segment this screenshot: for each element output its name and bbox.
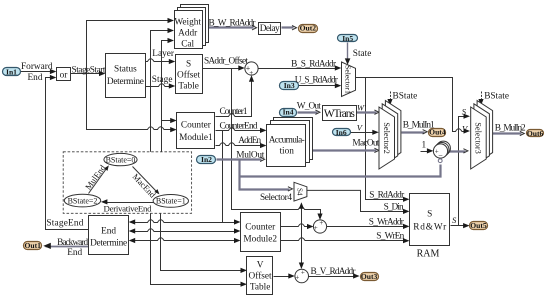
svg-text:1: 1 — [422, 141, 427, 151]
svg-text:StageStart: StageStart — [72, 66, 106, 76]
label B_V_RdAddr — [311, 267, 357, 277]
svg-text:B_S_RdAddr: B_S_RdAddr — [291, 60, 337, 70]
bus B_MulIn1 from Selector2 to Out4 — [402, 130, 428, 134]
wire H1 branch down into adder2 top — [299, 210, 304, 270]
block WTrans — [323, 106, 357, 121]
svg-text:Selector4: Selector4 — [260, 193, 292, 203]
svg-text:In4: In4 — [283, 108, 294, 117]
svg-text:W': W' — [357, 102, 366, 112]
svg-text:Layer: Layer — [152, 49, 175, 59]
svg-text:MacOut: MacOut — [352, 138, 379, 148]
svg-text:WTrans: WTrans — [324, 108, 356, 120]
svg-text:Table: Table — [250, 283, 271, 293]
wire Selector1 output to Selector3 V input, descent at x452.5, hump over x458.5 — [356, 78, 471, 134]
svg-text:W_Out: W_Out — [297, 102, 321, 112]
block RAM S Rd&Wr — [410, 194, 450, 260]
block Accumulation (stacked) — [267, 118, 313, 167]
svg-text:MulOut: MulOut — [236, 150, 264, 160]
svg-text:Rd&Wr: Rd&Wr — [413, 223, 447, 233]
label MacOut — [352, 138, 379, 148]
block Counter Module2 — [241, 213, 281, 252]
wire Stage from Status Determine to S Offset Table in2, hump over riser B — [146, 83, 176, 88]
svg-text:BState: BState — [484, 91, 509, 101]
dashed BState control into Selector2 — [387, 92, 392, 106]
wire Counter Module2 out1 to adder1 — [281, 224, 314, 229]
wire U_S_RdAddr from In3 to Selector1 — [299, 83, 342, 88]
wire StageStart from or to Status Determine — [71, 71, 106, 76]
svg-text:CounterEnd: CounterEnd — [220, 122, 258, 132]
svg-text:B_W_RdAddr: B_W_RdAddr — [209, 18, 257, 28]
label StageStart — [72, 66, 106, 76]
svg-text:Module2: Module2 — [243, 235, 277, 245]
label constant 1 — [422, 141, 427, 151]
wire Backward End from End Determine to Out1 — [43, 243, 88, 249]
port Out6 — [527, 129, 544, 138]
svg-text:S_RdAddr: S_RdAddr — [369, 190, 405, 200]
bus W' from WTrans to Selector2 — [357, 110, 379, 114]
svg-text:or: or — [60, 70, 69, 80]
svg-text:StageEnd: StageEnd — [46, 219, 83, 229]
svg-text:Determine: Determine — [107, 77, 144, 87]
label V italic at Selector3 input — [462, 123, 469, 133]
label B_S_RdAddr — [291, 60, 337, 70]
svg-text:Out5: Out5 — [470, 221, 487, 230]
label Stage — [152, 75, 173, 85]
label U_S_RdAddr — [295, 76, 339, 86]
wire B_S_RdAddr from adder to Selector1 — [259, 65, 342, 70]
label State — [353, 49, 372, 59]
block Selector3 (stacked trapezoid) — [471, 101, 493, 169]
state BState=0 ellipse — [104, 153, 137, 165]
block S Offset Table — [176, 55, 203, 94]
svg-text:In2: In2 — [201, 155, 212, 164]
port In1 — [3, 67, 21, 76]
label BState at Selector3 — [484, 91, 509, 101]
wire S_WrAddr from adder1 to RAM — [327, 224, 410, 229]
block Weight Addr Cal (stacked) — [174, 5, 208, 50]
state BState=2 ellipse — [64, 194, 100, 207]
svg-text:Offset: Offset — [249, 271, 272, 282]
svg-text:Weight: Weight — [174, 17, 201, 27]
svg-text:Counter: Counter — [181, 121, 212, 131]
transition MulEnd arrow BState=2 to BState=0 — [83, 162, 109, 193]
subtractor 1-x (stacked circles) — [433, 141, 450, 163]
wire StageStart branch up to Weight Addr Cal in1 — [87, 18, 175, 74]
port In4 — [280, 108, 297, 117]
svg-text:In5: In5 — [342, 34, 353, 43]
svg-text:Out3: Out3 — [361, 272, 378, 281]
svg-text:In1: In1 — [6, 67, 17, 76]
wire RAM output S to Out5 and up to Selector3 S input — [451, 114, 471, 229]
svg-text:S_Din: S_Din — [384, 203, 404, 213]
label S_WrAddr — [369, 218, 405, 228]
label Backward End — [57, 238, 88, 258]
wire S_Din from Selector4 output to RAM — [307, 190, 410, 214]
wire v1: Stage net below state box to wire3 and V Offset Table in2 — [151, 214, 248, 287]
svg-text:Module1: Module1 — [179, 133, 213, 143]
label StageEnd — [46, 219, 83, 229]
svg-text:Addr: Addr — [178, 29, 198, 39]
svg-text:BState=2: BState=2 — [68, 196, 98, 205]
label B_MulIn1 — [403, 120, 435, 130]
label W_Out — [297, 102, 321, 112]
svg-text:End: End — [28, 73, 43, 83]
bus MacOut from Accumulation to Selector2 — [307, 148, 379, 152]
svg-text:B_MulIn1: B_MulIn1 — [403, 120, 435, 130]
wire In1 to or gate — [21, 69, 57, 74]
svg-text:Table: Table — [178, 81, 199, 91]
wire Counter1 from Counter Module1 up to SAddr adder — [216, 75, 255, 116]
svg-text:AddEn: AddEn — [238, 136, 261, 146]
svg-text:U_S_RdAddr: U_S_RdAddr — [295, 76, 339, 86]
svg-text:+: + — [301, 268, 305, 276]
wire CounterEnd from Counter Module1 to Accumulation, drop at x222 — [216, 128, 267, 223]
label S_Din — [384, 203, 404, 213]
label B_MulIn2 — [495, 123, 526, 133]
label Forward End — [21, 62, 53, 83]
block End Determine — [89, 216, 129, 255]
svg-text:Determine: Determine — [90, 239, 127, 249]
svg-text:Counter: Counter — [245, 222, 276, 232]
svg-text:Counter1: Counter1 — [220, 107, 248, 117]
port In2 — [197, 155, 216, 164]
svg-text:Out2: Out2 — [300, 23, 317, 32]
svg-text:Selector1: Selector1 — [343, 65, 352, 94]
transition MacEnd arrow BState=0 to BState=1 — [131, 167, 160, 201]
svg-text:+: + — [249, 69, 253, 77]
svg-text:Stage: Stage — [152, 75, 173, 85]
port In5 — [338, 34, 358, 43]
wire Layer from Status Determine to S Offset Table in1, hump over riser A — [146, 59, 176, 64]
block Selector2 (stacked trapezoid) — [379, 101, 401, 169]
wire State from In5 to Selector1 control — [345, 43, 351, 65]
svg-text:S: S — [462, 106, 467, 116]
label CounterEnd — [220, 122, 258, 132]
svg-text:V: V — [257, 261, 264, 271]
label Layer — [152, 49, 175, 59]
dashed BState control into Selector3 — [478, 92, 483, 106]
label S_RdAddr — [369, 190, 405, 200]
wire riser A: Stage net up to WAC in2 and down into state box top — [151, 28, 175, 153]
svg-text:In3: In3 — [284, 81, 295, 90]
dashed state machine box — [63, 152, 191, 214]
svg-text:+: + — [314, 224, 318, 232]
wire B_S net drop from SAddr_Offset to horizontal control line H1 — [232, 69, 323, 221]
svg-text:Offset: Offset — [177, 69, 200, 80]
port Out5 — [470, 221, 488, 230]
wire v2: Layer net below state box to wire2 and V Offset Table in1 — [161, 214, 248, 274]
svg-text:+: + — [295, 273, 299, 281]
svg-text:BState: BState — [393, 91, 418, 101]
bus B_MulIn2 from Selector3 to Out6 — [493, 131, 525, 135]
port Out1 — [24, 241, 42, 250]
block or gate — [57, 68, 71, 81]
port In6 — [333, 128, 351, 137]
wire S_WrEn from Counter Module2 to RAM, hump at x301 — [281, 238, 410, 244]
svg-text:tion: tion — [279, 147, 294, 157]
state BState=1 ellipse — [153, 195, 188, 208]
svg-text:B_V_RdAddr: B_V_RdAddr — [311, 267, 357, 277]
svg-text:S4: S4 — [296, 188, 304, 196]
svg-text:S: S — [427, 210, 432, 220]
svg-text:In6: In6 — [336, 128, 347, 137]
label SAddr_Offset — [204, 56, 248, 67]
label B_W_RdAddr — [209, 18, 257, 28]
svg-text:RAM: RAM — [417, 248, 440, 259]
block Counter Module1 — [177, 113, 215, 149]
wire B_V_RdAddr from adder2 to Out3 — [309, 273, 360, 278]
svg-text:S_WrAddr: S_WrAddr — [369, 218, 405, 228]
label AddEn — [238, 136, 261, 146]
port Out4 — [429, 128, 446, 137]
bus B_W_RdAddr from Weight Addr Cal to Delay to Out2 — [208, 26, 297, 30]
wire V from In6 to Selector2 — [351, 130, 379, 135]
label Selector4 — [260, 193, 292, 203]
wire V Offset Table output to adder2 — [274, 273, 295, 278]
wire SAddr_Offset from S Offset Table to adder — [203, 65, 245, 70]
wire riser B: Layer net up to WAC in3 and down to CM1 in1, into state box top — [162, 38, 177, 153]
svg-text:Backward: Backward — [57, 238, 88, 248]
svg-text:S: S — [452, 215, 457, 225]
port Out3 — [361, 272, 379, 281]
bus subtractor output to Selector3 — [448, 149, 468, 153]
label W' italic — [357, 102, 366, 112]
adder1 S_WrAddr (sum circle) — [313, 219, 326, 233]
label V italic near In6 — [357, 122, 364, 132]
block V Offset Table — [247, 257, 273, 295]
wire3 Stage net: End Determine in3 and Counter Module2 in3 — [129, 238, 241, 243]
svg-text:Out1: Out1 — [24, 241, 41, 250]
label S italic at Selector3 input — [462, 106, 467, 116]
port Out2 — [299, 23, 318, 32]
label BState at Selector2 — [393, 91, 418, 101]
block Delay — [259, 23, 281, 35]
svg-text:B_MulIn2: B_MulIn2 — [495, 123, 526, 133]
svg-text:Accumula-: Accumula- — [269, 135, 305, 145]
svg-text:S_WrEn: S_WrEn — [376, 232, 404, 242]
svg-text:BState=1: BState=1 — [156, 197, 186, 206]
wire1 CounterEnd net: End Determine in1 and Counter Module2 in1 — [129, 219, 241, 224]
label Counter1 — [220, 107, 248, 117]
wire2 Layer net: End Determine in2 and Counter Module2 in2 — [129, 228, 241, 233]
wire S_RdAddr branch down to RAM — [366, 78, 410, 202]
svg-text:Forward: Forward — [21, 62, 53, 72]
svg-text:DerivativeEnd: DerivativeEnd — [104, 203, 153, 213]
adder SAddr (sum circle) — [245, 62, 258, 77]
bus MulOut from In2 to Accumulation with branch down — [217, 157, 441, 191]
label MulOut — [236, 150, 264, 160]
wire H1 branch up into Selector4 control — [299, 202, 304, 209]
block Selector1 (trapezoid) — [342, 62, 356, 97]
svg-text:Delay: Delay — [260, 24, 280, 34]
label S_WrEn — [376, 232, 404, 242]
wire StageStart branch down to Counter Module1 in2 — [87, 74, 177, 133]
svg-text:SAddr_Offset: SAddr_Offset — [204, 56, 248, 67]
svg-text:End: End — [67, 248, 82, 258]
svg-text:S: S — [186, 59, 191, 69]
svg-text:+: + — [319, 219, 323, 227]
block Selector4 (small trapezoid) — [294, 182, 307, 201]
svg-text:Selector2: Selector2 — [382, 122, 391, 154]
bus W_Out from In4 to WTrans — [298, 110, 320, 114]
adder2 B_V_RdAddr (sum circle) — [295, 268, 309, 282]
svg-text:Cal: Cal — [181, 40, 194, 50]
wire constant 1 into subtractor — [421, 148, 434, 153]
svg-text:State: State — [353, 49, 372, 59]
wire AddEn from Counter Module1 to Accumulation, humps — [216, 143, 267, 148]
svg-text:Status: Status — [114, 65, 137, 75]
port In3 — [280, 81, 299, 90]
svg-text:Out6: Out6 — [527, 129, 544, 138]
svg-text:End: End — [101, 226, 116, 236]
transition DerivativeEnd arrow BState=1 to BState=2 — [101, 199, 154, 213]
block Status Determine — [106, 54, 146, 98]
svg-text:Selector3: Selector3 — [473, 122, 482, 154]
wire StageEnd feedback from End Determine to or gate — [46, 75, 89, 230]
svg-text:BState=0: BState=0 — [106, 155, 136, 164]
label S italic at RAM output — [452, 215, 457, 225]
